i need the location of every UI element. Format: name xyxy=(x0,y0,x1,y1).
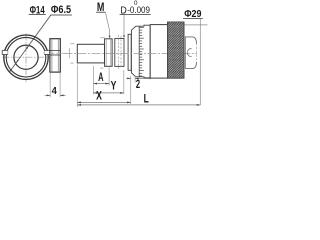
ext line Y right xyxy=(123,70,125,94)
dim A xyxy=(93,83,109,85)
stem B xyxy=(115,39,124,67)
svg-text:X: X xyxy=(96,89,102,103)
main centerline right of drum xyxy=(184,52,197,54)
graduation ticks xyxy=(139,27,144,76)
disc centerline dash xyxy=(49,52,65,54)
stub dash bottom left of spindle xyxy=(70,62,73,64)
svg-text:0: 0 xyxy=(134,0,138,7)
disc slot line top xyxy=(50,49,60,51)
dim Y xyxy=(93,92,123,94)
disc inner line left xyxy=(51,39,53,72)
svg-text:Φ6.5: Φ6.5 xyxy=(51,4,71,16)
main centerline left of drum xyxy=(64,52,168,54)
phi29 connector xyxy=(185,24,208,26)
stub dash top left of spindle xyxy=(70,43,74,45)
right extension line xyxy=(199,19,201,106)
inner circle d6.5 xyxy=(14,45,38,69)
thimble with bevel xyxy=(131,25,150,78)
leader arrow inner top xyxy=(26,46,29,50)
svg-text:2: 2 xyxy=(136,79,140,91)
right notch xyxy=(44,50,50,54)
lock nut side view disc xyxy=(50,39,60,72)
thimble body C xyxy=(150,25,167,79)
svg-text:Y: Y xyxy=(111,78,117,92)
left notch xyxy=(2,50,9,54)
leader arrow outer bottom xyxy=(9,69,12,73)
M leader xyxy=(105,12,109,37)
middle circle xyxy=(6,37,46,77)
hidden stub top near collar xyxy=(100,37,104,39)
svg-text:A: A xyxy=(98,72,103,84)
ext line X right / 2 left xyxy=(130,76,132,104)
outer circle d14 xyxy=(4,35,48,79)
D leader xyxy=(123,14,125,37)
graduation line xyxy=(138,27,140,77)
ratchet right edge hidden xyxy=(196,43,198,63)
dim 2 xyxy=(126,77,131,79)
dim 4 arrows xyxy=(45,94,51,96)
dim X xyxy=(77,101,130,103)
ratchet cap xyxy=(185,37,196,69)
front view horizontal centerline xyxy=(3,56,51,58)
leader arrow inner bottom xyxy=(16,60,19,64)
disc inner line right xyxy=(57,39,59,72)
hidden line 2 in stem xyxy=(120,36,122,68)
svg-text:L: L xyxy=(144,91,149,105)
ratchet inner curl xyxy=(187,49,191,57)
ext line A left xyxy=(92,66,94,95)
disc slot line bottom xyxy=(50,54,60,56)
collar A xyxy=(105,39,113,67)
svg-text:-0.009: -0.009 xyxy=(127,5,150,15)
dim L xyxy=(77,104,200,106)
hidden stub bottom near collar xyxy=(100,67,103,69)
centerline cross tick xyxy=(69,48,71,58)
svg-text:4: 4 xyxy=(52,85,57,97)
diameter leader line 45deg xyxy=(9,15,51,72)
front view vertical centerline xyxy=(25,34,27,83)
ext line A right xyxy=(108,68,110,86)
leader arrow outer top xyxy=(33,36,36,40)
sleeve flange xyxy=(128,34,131,70)
knurled drum d29 xyxy=(168,22,185,78)
ext line spindle tip xyxy=(76,65,78,108)
ext line 2 right xyxy=(134,76,136,83)
spindle xyxy=(77,44,104,63)
hidden line 1 in stem xyxy=(118,35,120,69)
dim 4 ext lines xyxy=(49,73,51,97)
svg-text:D: D xyxy=(120,6,126,17)
